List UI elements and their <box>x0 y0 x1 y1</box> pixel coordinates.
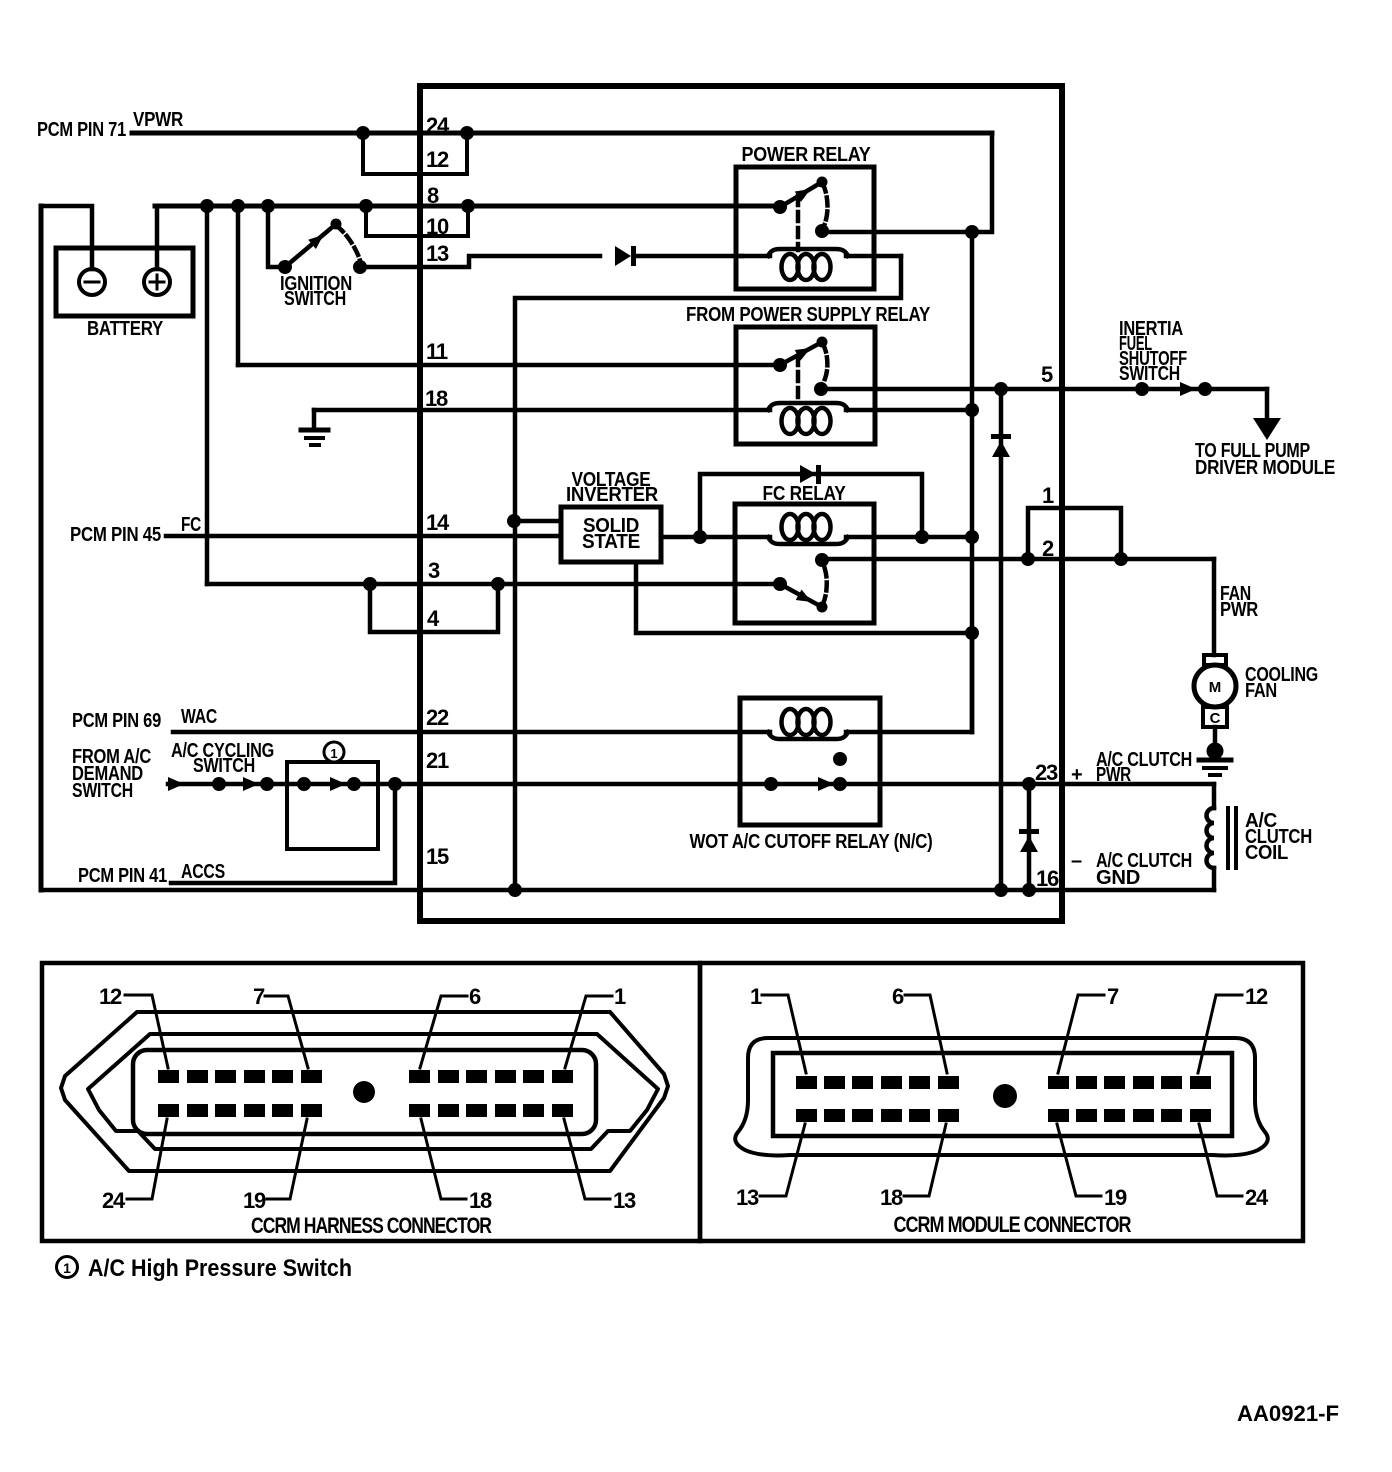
wire loop pin 3 to pin 4 <box>370 584 498 632</box>
CCRM harness connector outline <box>61 1012 668 1171</box>
svg-text:WOT A/C CUTOFF RELAY (N/C): WOT A/C CUTOFF RELAY (N/C) <box>690 831 933 853</box>
svg-text:FC: FC <box>181 514 201 536</box>
svg-text:10: 10 <box>426 214 449 239</box>
arrow x243 <box>243 777 259 791</box>
wire solid state to FC relay coil <box>661 535 770 540</box>
svg-text:M: M <box>1209 679 1222 696</box>
svg-text:–: – <box>1071 850 1082 872</box>
junction x219 <box>212 777 226 791</box>
pin 2 label <box>1042 536 1054 561</box>
svg-text:CCRM MODULE CONNECTOR: CCRM MODULE CONNECTOR <box>894 1212 1132 1237</box>
junction pin5 diode rail <box>994 382 1008 396</box>
inertia fuel shutoff switch <box>1119 318 1212 396</box>
svg-text:21: 21 <box>426 748 449 773</box>
wire ACCS to pin 21 line <box>171 784 395 883</box>
svg-text:PWR: PWR <box>1220 599 1259 621</box>
svg-text:SWITCH: SWITCH <box>1119 363 1180 385</box>
wire power relay coil return <box>515 256 901 890</box>
module connector pins top right <box>1048 1076 1211 1089</box>
junction x267 <box>260 777 274 791</box>
svg-text:1: 1 <box>330 746 337 761</box>
svg-text:18: 18 <box>880 1185 903 1210</box>
pin 16 label <box>1036 866 1059 891</box>
svg-text:GND: GND <box>1096 867 1140 889</box>
wire loop pin 24 to pin 12 <box>363 133 467 174</box>
pin 13 label <box>426 241 449 266</box>
WOT relay coil <box>768 709 972 739</box>
pin 23 label <box>1035 760 1058 785</box>
wire VPWR to pin 24 <box>132 131 992 136</box>
svg-text:14: 14 <box>426 510 450 535</box>
wire bus drop x238 to pin 11 line <box>236 206 241 365</box>
harness pin 7 callout <box>253 984 308 1068</box>
svg-text:CCRM HARNESS CONNECTOR: CCRM HARNESS CONNECTOR <box>251 1213 492 1238</box>
pin 4 label <box>427 606 440 631</box>
pin 21 label <box>426 748 449 773</box>
junction power relay output x972 <box>965 225 979 239</box>
svg-text:15: 15 <box>426 844 449 869</box>
svg-text:18: 18 <box>469 1188 492 1213</box>
junction pin23 diode <box>1022 777 1036 791</box>
harness connector pins top right <box>409 1070 573 1083</box>
module pin 13 callout <box>736 1124 805 1210</box>
harness pin 12 callout <box>99 984 168 1068</box>
arrow x330 <box>330 777 346 791</box>
module pin 7 callout <box>1058 984 1119 1073</box>
junction coil to VPWR rail <box>965 403 979 417</box>
svg-text:18: 18 <box>425 386 448 411</box>
junction x304 <box>297 777 311 791</box>
harness pin 13 callout <box>564 1119 636 1213</box>
wire bus drop x268 to ignition switch <box>268 206 285 267</box>
module pin 12 callout <box>1198 984 1268 1073</box>
pin 18 label <box>425 386 448 411</box>
A/C cycling switch box <box>287 762 378 849</box>
harness connector pins bottom left <box>158 1104 322 1117</box>
WOT relay label <box>690 831 933 853</box>
cooling fan motor M1 <box>1194 655 1318 727</box>
pin 11 wire to power supply relay <box>238 363 780 368</box>
svg-text:7: 7 <box>253 984 265 1009</box>
harness pin 19 callout <box>243 1119 307 1213</box>
harness connector pins bottom right <box>409 1104 573 1117</box>
power relay coil <box>742 249 901 280</box>
fan ground <box>1199 727 1231 775</box>
svg-text:STATE: STATE <box>582 531 640 553</box>
connector panel right <box>700 963 1303 1241</box>
clamp diode D2 near pin 5 <box>991 389 1011 890</box>
junction x396 ACCS <box>388 777 402 791</box>
svg-text:PCM PIN 71: PCM PIN 71 <box>37 119 126 141</box>
svg-text:16: 16 <box>1036 866 1059 891</box>
svg-text:12: 12 <box>426 147 449 172</box>
svg-text:24: 24 <box>426 113 450 138</box>
power relay label <box>742 144 872 166</box>
WOT relay contacts <box>764 752 847 791</box>
pin 1 label <box>1042 483 1054 508</box>
svg-text:PCM PIN 69: PCM PIN 69 <box>72 710 161 732</box>
power supply relay coil <box>768 403 972 434</box>
svg-text:+: + <box>1071 764 1082 786</box>
junction lower output to rail <box>965 626 979 640</box>
wire branch to solid state input <box>514 519 561 524</box>
svg-text:1: 1 <box>750 984 762 1009</box>
svg-text:A/C High Pressure Switch: A/C High Pressure Switch <box>88 1255 352 1282</box>
svg-text:POWER RELAY: POWER RELAY <box>742 144 872 166</box>
A/C clutch coil L1 <box>1207 784 1313 890</box>
wire pin 21 A/C clutch line <box>168 782 1214 787</box>
svg-text:11: 11 <box>426 339 448 364</box>
wire PCM pin 45 to pin 14 <box>166 534 561 539</box>
svg-text:13: 13 <box>613 1188 636 1213</box>
wire loop pin 8 to pin 10 <box>366 206 468 236</box>
junction bus x238 <box>231 199 245 213</box>
power supply relay label <box>686 304 931 326</box>
svg-text:SWITCH: SWITCH <box>193 755 255 777</box>
module connector pins top left <box>796 1076 959 1089</box>
vertical VPWR feed rail x972 <box>970 232 975 732</box>
pin 18 wire to power supply relay coil <box>314 408 770 413</box>
module connector center hole <box>993 1084 1017 1108</box>
svg-text:1: 1 <box>1042 483 1054 508</box>
junction FC coil right bypass <box>915 530 929 544</box>
svg-text:1: 1 <box>614 984 626 1009</box>
FC relay coil <box>768 514 972 544</box>
junction bus x207 <box>200 199 214 213</box>
junction FC coil left bypass <box>693 530 707 544</box>
svg-text:PCM PIN 45: PCM PIN 45 <box>70 524 161 546</box>
wire battery positive lead <box>155 206 160 269</box>
junction pin2 x1121 <box>1114 552 1128 566</box>
svg-text:BATTERY: BATTERY <box>87 318 164 340</box>
pin 14 label <box>426 510 450 535</box>
harness pin 6 callout <box>420 984 481 1068</box>
wire loop pin 1 to pin 2 <box>1028 508 1121 559</box>
node VPWR label <box>37 109 184 141</box>
module pin 18 callout <box>880 1124 946 1210</box>
svg-text:VPWR: VPWR <box>133 109 184 131</box>
harness connector pins top left <box>158 1070 322 1083</box>
pin 24 label <box>426 113 450 138</box>
svg-text:SWITCH: SWITCH <box>284 288 346 310</box>
pin 15 label <box>426 844 449 869</box>
junction x354 <box>347 777 361 791</box>
svg-text:ACCS: ACCS <box>181 861 225 883</box>
svg-text:6: 6 <box>469 984 481 1009</box>
svg-text:2: 2 <box>1042 536 1054 561</box>
power relay switch <box>773 177 829 251</box>
wire WAC to pin 22 WOT coil <box>173 730 770 735</box>
wire to fuel pump driver module with arrow <box>1195 389 1335 479</box>
ignition switch SW1 <box>278 219 367 311</box>
svg-text:FC RELAY: FC RELAY <box>763 483 847 505</box>
wire pin 3 to FC relay common <box>207 582 780 587</box>
wire pin 5 fuel pump feed <box>821 387 1267 392</box>
pin 8 label <box>427 183 439 208</box>
node WAC label <box>72 706 217 732</box>
junction on VPWR wire <box>356 126 370 140</box>
svg-text:3: 3 <box>428 558 440 583</box>
connector panel left <box>42 963 700 1241</box>
wire power relay output to VPWR corner <box>822 133 992 232</box>
junction ground x1029 <box>1022 883 1036 897</box>
module connector pins bottom right <box>1048 1109 1211 1122</box>
wire bus drop x207 to pin 3 line <box>205 206 210 584</box>
svg-text:7: 7 <box>1107 984 1119 1009</box>
input arrow <box>168 777 184 791</box>
diode D1 on pin 13 wire <box>615 246 742 266</box>
junction ground x1001 <box>994 883 1008 897</box>
module connector caption <box>894 1212 1132 1237</box>
node A/C clutch gnd label <box>1071 850 1192 889</box>
pin 22 label <box>426 705 449 730</box>
svg-text:5: 5 <box>1041 362 1053 387</box>
svg-text:1: 1 <box>63 1260 71 1276</box>
harness connector caption <box>251 1213 492 1238</box>
svg-text:22: 22 <box>426 705 449 730</box>
module pin 6 callout <box>892 984 947 1073</box>
FC relay label <box>763 483 847 505</box>
svg-text:PCM PIN 41: PCM PIN 41 <box>78 865 167 887</box>
harness pin 24 callout <box>102 1119 167 1213</box>
svg-text:FAN: FAN <box>1245 680 1277 702</box>
wire FC relay output pin 2 to fan <box>822 557 1214 562</box>
svg-text:WAC: WAC <box>181 706 217 728</box>
svg-text:SWITCH: SWITCH <box>72 780 133 802</box>
wire ground bottom rail pins 15 and 16 <box>41 888 1214 893</box>
CCRM module box <box>420 86 1062 921</box>
harness pin 18 callout <box>421 1119 492 1213</box>
WOT relay K4 box <box>740 698 880 825</box>
svg-text:INVERTER: INVERTER <box>566 484 659 506</box>
module pin 1 callout <box>750 984 806 1073</box>
junction pin2 x1028 <box>1021 552 1035 566</box>
svg-text:13: 13 <box>736 1185 759 1210</box>
junction pin3 x498 <box>491 577 505 591</box>
svg-text:PWR: PWR <box>1096 764 1132 786</box>
svg-text:C: C <box>1210 710 1221 727</box>
FC relay switch <box>773 553 829 613</box>
clamp diode D4 near pin 23 <box>1019 784 1039 890</box>
svg-text:DRIVER MODULE: DRIVER MODULE <box>1195 457 1335 479</box>
node ACCS label <box>78 861 225 887</box>
circled 1 marker <box>324 742 344 762</box>
svg-text:12: 12 <box>99 984 122 1009</box>
node FC label <box>70 514 201 546</box>
svg-text:24: 24 <box>102 1188 126 1213</box>
wire solid state lower output <box>636 562 972 633</box>
svg-text:12: 12 <box>1245 984 1268 1009</box>
node A/C clutch pwr label <box>1071 749 1192 786</box>
wire battery negative lead <box>41 206 92 269</box>
power supply relay K2 box <box>736 327 875 444</box>
svg-text:AA0921-F: AA0921-F <box>1237 1401 1339 1426</box>
node FAN PWR label <box>1220 583 1259 621</box>
battery B+ bus wire <box>155 204 780 209</box>
pin 11 label <box>426 339 448 364</box>
junction bus x366 <box>359 199 373 213</box>
footnote A/C high pressure switch <box>57 1255 353 1282</box>
power supply relay switch <box>773 337 828 405</box>
wire WOT coil up to rail <box>970 634 975 732</box>
wire ignition switch to pin 13 <box>360 256 600 267</box>
svg-text:FROM POWER SUPPLY RELAY: FROM POWER SUPPLY RELAY <box>686 304 931 326</box>
power relay K1 box <box>736 167 874 289</box>
harness connector center hole <box>353 1081 375 1103</box>
junction at pin 24 <box>460 126 474 140</box>
pin 10 label <box>426 214 449 239</box>
svg-text:19: 19 <box>1104 1185 1127 1210</box>
FC relay K3 box <box>735 504 874 623</box>
pin 18 ground symbol <box>301 410 328 445</box>
junction solid state branch <box>507 514 521 528</box>
junction ground x513 <box>508 883 522 897</box>
pin 5 label <box>1041 362 1053 387</box>
svg-text:23: 23 <box>1035 760 1058 785</box>
pin 3 label <box>428 558 440 583</box>
svg-text:6: 6 <box>892 984 904 1009</box>
svg-text:19: 19 <box>243 1188 266 1213</box>
module pin 19 callout <box>1057 1124 1127 1210</box>
wire ground left rail <box>39 206 44 890</box>
svg-text:13: 13 <box>426 241 449 266</box>
A/C cycling switch label <box>171 740 274 777</box>
diode D3 bypass over FC relay <box>700 465 922 537</box>
harness pin 1 callout <box>565 984 626 1068</box>
battery BAT1 <box>56 248 193 340</box>
CCRM module connector outline <box>735 1038 1268 1155</box>
svg-text:8: 8 <box>427 183 439 208</box>
drawing number <box>1237 1401 1339 1426</box>
junction FC coil VPWR rail <box>965 530 979 544</box>
svg-text:24: 24 <box>1245 1185 1269 1210</box>
wire fan power drop <box>1212 559 1217 655</box>
pin 12 label <box>426 147 449 172</box>
module pin 24 callout <box>1199 1124 1269 1210</box>
junction pin3 x370 <box>363 577 377 591</box>
svg-text:COIL: COIL <box>1245 842 1288 864</box>
voltage inverter U1 <box>561 469 661 562</box>
junction bus x268 <box>261 199 275 213</box>
node A/C demand input <box>72 746 151 802</box>
junction at pin 8 <box>461 199 475 213</box>
module connector pins bottom left <box>796 1109 959 1122</box>
